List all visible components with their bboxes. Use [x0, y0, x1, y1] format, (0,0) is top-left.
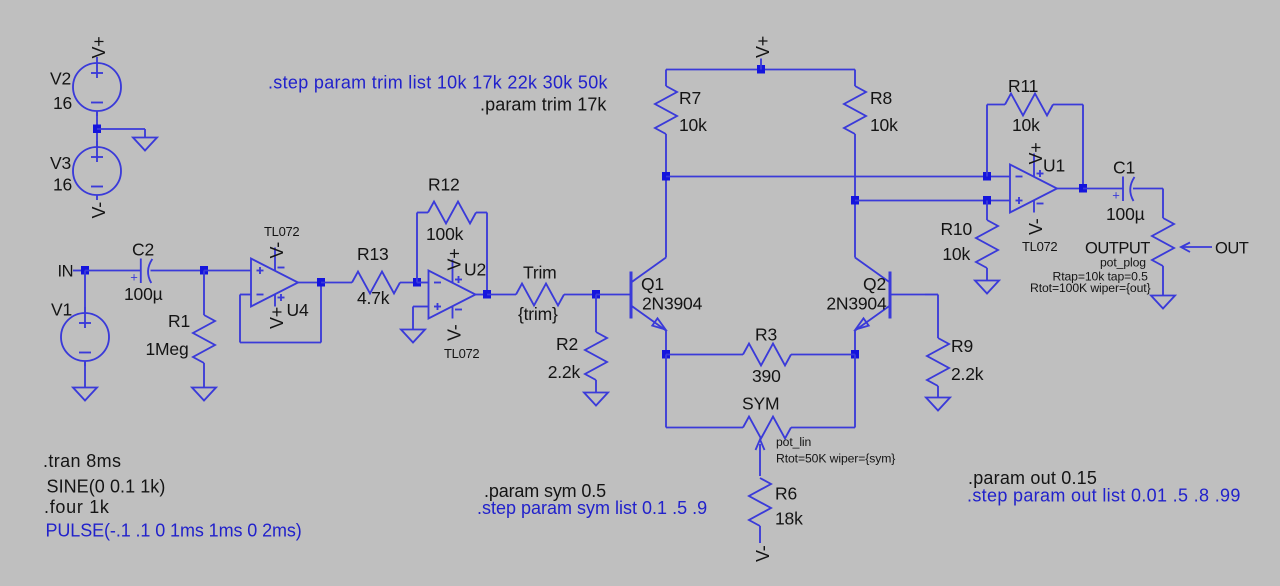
svg-text:100k: 100k — [426, 224, 464, 244]
wire U4 feedback 1 — [240, 294, 251, 296]
node U1 -in/R11 — [983, 172, 991, 181]
svg-text:1Meg: 1Meg — [146, 339, 189, 359]
wire R10 top — [986, 201, 988, 221]
wire V1 top — [84, 271, 86, 314]
resistor R3 — [743, 344, 791, 366]
wire R8 top — [854, 70, 856, 87]
transistor Q1 — [596, 258, 666, 331]
resistor R6 — [749, 478, 771, 526]
svg-text:10k: 10k — [679, 115, 707, 135]
svg-text:U1: U1 — [1043, 156, 1065, 176]
resistor R12 — [428, 202, 476, 224]
svg-text:.tran 8ms: .tran 8ms — [43, 451, 121, 471]
svg-text:+: + — [130, 270, 138, 285]
svg-text:18k: 18k — [775, 509, 803, 529]
wire R9 bottom — [937, 386, 939, 398]
svg-text:TL072: TL072 — [264, 224, 299, 239]
svg-text:V-: V- — [267, 242, 287, 259]
resistor R10 — [976, 220, 998, 268]
SYM wiper arrow — [756, 440, 765, 477]
svg-text:R3: R3 — [755, 325, 777, 345]
svg-text:V1: V1 — [51, 300, 72, 320]
wire R7 to Q1 collector — [665, 134, 667, 258]
wire to C1 — [1083, 188, 1123, 190]
resistor R13 — [352, 272, 400, 294]
wire R11 left — [986, 105, 988, 177]
wire node to U2 — [417, 282, 429, 284]
svg-text:V-: V- — [445, 324, 465, 341]
op-amp U2 — [429, 260, 476, 319]
wire Q2 base to R9 — [925, 294, 938, 296]
svg-text:V+: V+ — [445, 249, 465, 271]
node Q2 emitter — [851, 350, 859, 359]
svg-text:V-: V- — [1026, 218, 1046, 235]
svg-text:R9: R9 — [951, 336, 973, 356]
svg-text:R10: R10 — [940, 219, 972, 239]
capacitor C1 — [1123, 177, 1135, 202]
wire Q2 emitter — [854, 331, 856, 355]
svg-text:+: + — [1112, 188, 1120, 203]
wire R12 left lead — [417, 212, 428, 214]
wire R10 bottom — [986, 268, 988, 281]
ground at R2 — [584, 393, 608, 406]
svg-text:R13: R13 — [357, 244, 389, 264]
wire R11 right — [1082, 105, 1084, 189]
voltage source V2 — [73, 57, 121, 116]
svg-text:.step param out list 0.01 .5 .: .step param out list 0.01 .5 .8 .99 — [967, 486, 1241, 506]
ground at U2 — [401, 330, 425, 343]
node IN — [81, 266, 89, 275]
svg-text:V+: V+ — [267, 307, 287, 329]
wire IN to C2 — [85, 270, 140, 272]
svg-text:U2: U2 — [464, 260, 486, 280]
svg-text:TL072: TL072 — [1022, 239, 1057, 254]
svg-text:U4: U4 — [287, 300, 309, 320]
svg-text:2N3904: 2N3904 — [826, 294, 887, 314]
wire pot top — [1162, 189, 1164, 219]
svg-text:R2: R2 — [556, 334, 578, 354]
wire U1 output — [1057, 188, 1083, 190]
wire R13 to node — [400, 282, 417, 284]
wire R6 bottom — [759, 526, 761, 543]
resistor R9 — [927, 338, 949, 386]
wire Q1E down — [665, 355, 667, 428]
svg-text:Trim: Trim — [523, 263, 557, 283]
svg-text:Rtot=50K wiper={sym}: Rtot=50K wiper={sym} — [776, 452, 895, 466]
node U2 out — [483, 290, 491, 299]
svg-text:R11: R11 — [1008, 76, 1038, 96]
svg-text:10k: 10k — [870, 115, 898, 135]
wire R7 top — [665, 70, 667, 87]
wire R11 right lead — [1053, 104, 1083, 106]
wire Q1E to R3 — [666, 354, 743, 356]
wire R12 left — [416, 213, 418, 283]
wire ground stub — [144, 129, 146, 138]
resistor R1 — [193, 315, 215, 363]
wire U4 feedback 4 — [320, 283, 322, 343]
wire U2 output — [476, 294, 488, 296]
wire R9 top — [937, 295, 939, 339]
node Q1 emitter — [662, 350, 670, 359]
wire node to U4 — [204, 270, 251, 272]
wire R12 right lead — [476, 212, 487, 214]
svg-text:V3: V3 — [50, 153, 71, 173]
node Q1 base — [592, 290, 600, 299]
wire R12 right — [486, 213, 488, 295]
svg-text:IN: IN — [58, 263, 74, 281]
potentiometer OUTPUT — [1152, 218, 1174, 266]
svg-text:R12: R12 — [428, 175, 460, 195]
wire V+ rail — [666, 69, 855, 71]
wire to SYM left — [666, 427, 743, 429]
wire R11 left lead — [987, 104, 1005, 106]
wire to SYM right — [791, 427, 855, 429]
svg-text:R6: R6 — [775, 484, 797, 504]
svg-text:V-: V- — [753, 545, 773, 562]
svg-text:.step param sym list 0.1 .5 .9: .step param sym list 0.1 .5 .9 — [477, 498, 707, 518]
resistor Trim — [516, 284, 564, 306]
svg-text:2.2k: 2.2k — [548, 362, 581, 382]
svg-text:V-: V- — [89, 202, 109, 219]
wire U2 +in down — [412, 307, 414, 330]
svg-text:Q2: Q2 — [863, 274, 886, 294]
wire to Trim — [487, 294, 516, 296]
ground at OUTPUT pot — [1151, 296, 1175, 309]
svg-text:PULSE(-.1 .1 0 1ms 1ms 0 2ms): PULSE(-.1 .1 0 1ms 1ms 0 2ms) — [46, 521, 302, 541]
svg-text:TL072: TL072 — [444, 346, 479, 361]
svg-text:SYM: SYM — [742, 394, 779, 414]
node V2/V3 junction — [93, 125, 101, 134]
svg-text:V+: V+ — [753, 36, 773, 58]
wire V1 bottom — [84, 361, 86, 388]
wire U4 output — [298, 282, 321, 284]
voltage source V1 — [61, 307, 109, 366]
svg-text:.step param trim list 10k 17k: .step param trim list 10k 17k 22k 30k 50… — [268, 73, 609, 93]
svg-text:4.7k: 4.7k — [357, 288, 390, 308]
wire R2 top — [595, 295, 597, 333]
wire Q2C to U1 +in — [855, 200, 1010, 202]
wire Trim to node — [564, 294, 596, 296]
svg-text:.param trim 17k: .param trim 17k — [480, 95, 607, 115]
svg-text:2N3904: 2N3904 — [642, 294, 703, 314]
svg-text:16: 16 — [53, 175, 72, 195]
node V+ rail — [757, 65, 765, 74]
svg-text:C2: C2 — [132, 240, 154, 260]
svg-text:100µ: 100µ — [1106, 204, 1145, 224]
wire U4 feedback 3 — [240, 342, 321, 344]
ground at V2/V3 — [133, 138, 157, 151]
svg-text:Q1: Q1 — [641, 274, 664, 294]
svg-text:R8: R8 — [870, 88, 892, 108]
svg-text:2.2k: 2.2k — [951, 364, 984, 384]
wire R2 bottom — [595, 380, 597, 393]
ground at R10 — [975, 281, 999, 294]
wire pot bottom — [1162, 266, 1164, 296]
svg-text:OUT: OUT — [1215, 240, 1249, 258]
svg-text:{trim}: {trim} — [518, 304, 558, 324]
svg-text:R1: R1 — [168, 311, 190, 331]
wire to ground — [97, 128, 145, 130]
wire R8 to Q2 collector — [854, 134, 856, 258]
op-amp U1 — [1010, 154, 1057, 213]
wire U4 feedback 2 — [239, 295, 241, 343]
svg-text:390: 390 — [752, 366, 781, 386]
ground at V1 — [73, 388, 97, 401]
node Q1 collector — [662, 172, 670, 181]
node Q2 collector — [851, 196, 859, 205]
ground at R9 — [926, 398, 950, 411]
node R13/R12 — [413, 278, 421, 287]
transistor Q2 — [855, 258, 925, 331]
wire Q1C to U1 -in — [666, 176, 1010, 178]
wire Q1 emitter — [665, 331, 667, 355]
resistor R11 — [1005, 94, 1053, 116]
wire V2-V3 — [96, 111, 98, 147]
wire R3 to Q2E — [791, 354, 855, 356]
svg-text:16: 16 — [53, 93, 72, 113]
voltage source V3 — [73, 141, 121, 200]
node U1 +in/R10 — [983, 196, 991, 205]
svg-text:.four 1k: .four 1k — [44, 497, 110, 517]
svg-text:V+: V+ — [89, 37, 109, 59]
resistor R8 — [844, 86, 866, 134]
wire V+ stub — [760, 59, 762, 70]
op-amp U4 — [251, 248, 298, 307]
wire Q2E down — [854, 355, 856, 428]
svg-text:10k: 10k — [1012, 115, 1040, 135]
node U1 out — [1079, 184, 1087, 193]
svg-text:10k: 10k — [942, 244, 970, 264]
wire to R13 — [321, 282, 352, 284]
ground at R1 — [192, 388, 216, 401]
svg-text:SINE(0 0.1 1k): SINE(0 0.1 1k) — [47, 477, 166, 497]
wire C2 to node — [151, 270, 205, 272]
wire U2 +in stub — [413, 306, 429, 308]
svg-text:C1: C1 — [1113, 158, 1135, 178]
node U4 out — [317, 278, 325, 287]
wire R1 bottom — [203, 363, 205, 388]
capacitor C2 — [141, 259, 153, 284]
node C2/R1 — [200, 266, 208, 275]
potentiometer SYM — [743, 417, 791, 439]
resistor R2 — [585, 332, 607, 380]
OUT wiper arrow — [1181, 243, 1212, 253]
svg-text:Rtot=100K wiper={out}: Rtot=100K wiper={out} — [1030, 281, 1151, 295]
wire C1 to pot — [1133, 188, 1163, 190]
svg-text:R7: R7 — [679, 88, 701, 108]
svg-text:pot_plog: pot_plog — [1100, 256, 1146, 270]
svg-text:100µ: 100µ — [124, 284, 163, 304]
svg-text:pot_lin: pot_lin — [776, 435, 811, 449]
resistor R7 — [655, 86, 677, 134]
wire R1 top — [203, 271, 205, 316]
wire IN stub — [73, 270, 85, 272]
svg-text:V2: V2 — [50, 69, 71, 89]
